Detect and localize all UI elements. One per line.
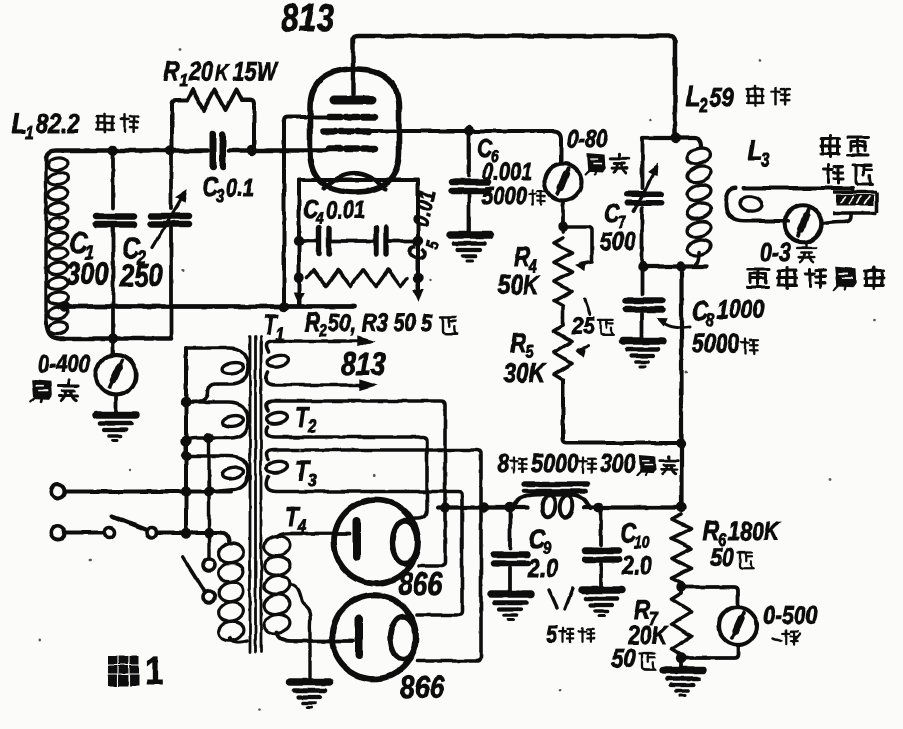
node junction T2-top on bus — [440, 502, 450, 512]
svg-text:3: 3 — [761, 149, 770, 171]
svg-text:2.0: 2.0 — [621, 550, 652, 580]
svg-text:0-80: 0-80 — [567, 126, 608, 153]
label R7 20K 50W — [634, 594, 650, 625]
svg-text:813: 813 — [341, 346, 385, 382]
tube V2 866 plate bar — [353, 521, 361, 557]
tube V2 866 filament loop — [393, 521, 418, 564]
svg-text:180K: 180K — [728, 516, 781, 546]
svg-text:250: 250 — [119, 258, 163, 293]
transformer primary winding P1 — [186, 348, 248, 402]
label figure 1 — [108, 656, 139, 686]
tube V2 866 envelope — [334, 500, 418, 584]
svg-text:3: 3 — [308, 470, 316, 490]
svg-text:L: L — [686, 81, 700, 113]
transformer T core — [249, 337, 252, 652]
svg-text:50: 50 — [612, 643, 636, 673]
label T2 — [295, 401, 311, 432]
ground - C9 — [491, 594, 531, 620]
wire - main top-left wire from L1 to grid cap C3 — [46, 151, 208, 161]
label R2 50, R3 50 5W — [305, 307, 321, 337]
svg-text:2: 2 — [307, 416, 316, 436]
node junction screen wire / C6 — [464, 125, 474, 135]
wire - tap selector — [207, 438, 210, 558]
svg-text:4: 4 — [297, 516, 306, 536]
ground - T4 center tap — [290, 682, 330, 708]
label L3 — [748, 135, 762, 167]
label C7 500 — [604, 198, 620, 228]
label C8 1000 5000V — [692, 295, 709, 326]
svg-text:8: 8 — [497, 448, 509, 478]
capacitor C10 2.0 — [599, 508, 603, 546]
terminal input 1 — [51, 485, 65, 499]
arrow - right rail end — [414, 290, 423, 300]
label RF ammeter — [748, 269, 769, 287]
svg-text:R: R — [510, 327, 526, 358]
tank top rail — [642, 138, 701, 147]
svg-text:5000: 5000 — [531, 448, 579, 478]
svg-text:1: 1 — [25, 122, 34, 144]
node junction primary P3 top — [181, 451, 191, 461]
label 866 no2 — [400, 669, 445, 705]
label 866 no1 — [398, 566, 443, 602]
wire - R4 rheostat bypass — [563, 227, 592, 264]
capacitor C6 0.001 5000V — [467, 131, 471, 177]
svg-text:4: 4 — [315, 209, 324, 228]
svg-text:0.01: 0.01 — [326, 197, 365, 224]
ground - C10 — [582, 590, 622, 616]
label 0-400 — [38, 351, 90, 378]
svg-text:2.0: 2.0 — [527, 553, 558, 583]
label 5 kV marks — [549, 590, 557, 608]
label milliampere M2 — [586, 154, 605, 174]
wire - input 2 to primary — [157, 533, 229, 542]
svg-text:5: 5 — [546, 621, 557, 647]
meter M4 0-500 V — [682, 587, 739, 607]
svg-text:K: K — [215, 60, 230, 85]
transformer primary winding P2 — [186, 402, 248, 441]
svg-text:25: 25 — [571, 313, 595, 340]
label R5 30K — [510, 327, 526, 358]
node junction input2/tap — [204, 527, 214, 537]
node junction C10 tap — [593, 502, 603, 512]
node junction grid-return on cathode bus — [279, 302, 289, 312]
resistor R5 30K — [561, 306, 565, 325]
tube V3 866 filament loop — [391, 617, 416, 660]
label C3 0.1 — [202, 171, 219, 202]
svg-text:0.1: 0.1 — [226, 175, 254, 202]
tube V1 813 filament dome — [324, 174, 385, 190]
capacitor C7 500 (variable) — [640, 138, 644, 188]
label 0-3A — [760, 237, 791, 267]
node junction R-row left — [294, 273, 304, 283]
svg-text:5000: 5000 — [692, 328, 740, 358]
node junction C4 left — [294, 236, 304, 246]
label C6 0.001 5000V — [477, 133, 493, 163]
tube V3 866 plate bar — [355, 619, 363, 655]
ground - C6 — [450, 235, 490, 261]
tube V1 813 grid row 2 dashes (screen) — [323, 128, 335, 135]
ground - meter M1 — [96, 415, 136, 441]
node junction T3-top crossing bus — [479, 502, 489, 512]
wire - T2 top to 866no1 filament (below bus) — [419, 508, 445, 567]
meter M3 0-3A RF ammeter — [785, 206, 822, 243]
inductor L2 tank coil — [685, 146, 713, 167]
node junction tap wire top — [204, 433, 214, 443]
tube V1 813 grid row 3 dashes — [329, 145, 341, 152]
svg-text:L: L — [12, 108, 26, 140]
capacitor C1 300 — [111, 151, 115, 209]
label R6 180K 50W — [703, 515, 719, 546]
arrow - R4 tap — [576, 262, 586, 270]
label 0-80 — [567, 126, 608, 153]
svg-text:R: R — [163, 55, 179, 86]
transformer secondary T2 — [266, 401, 445, 503]
transformer secondary T3 — [266, 450, 481, 661]
node junction L1 tap — [60, 301, 70, 311]
label 0-500 V — [763, 600, 818, 630]
inductor L1 winding — [44, 158, 47, 327]
node junction R4 top — [558, 222, 568, 232]
wire - cathode output bus (866 rectifier output) — [438, 505, 681, 509]
node junction R-row right — [413, 273, 423, 283]
svg-text:0-400: 0-400 — [38, 351, 90, 378]
meter M1 0-400 mA — [111, 339, 115, 356]
label T3 — [295, 455, 311, 486]
transformer primary bus — [184, 348, 188, 533]
svg-text:30K: 30K — [504, 357, 547, 388]
switch S1 blade — [112, 516, 147, 530]
resistor R4 50K — [554, 238, 572, 306]
node junction primary bottom / input2 — [181, 528, 191, 538]
node junction C2/R1 left — [165, 145, 175, 155]
tap terminal A — [203, 559, 215, 571]
svg-text:300: 300 — [66, 256, 109, 291]
label T1 — [263, 309, 279, 340]
label C9 2.0 — [529, 523, 546, 554]
arrow - left rail to cathode bus — [295, 293, 304, 303]
label 25W — [585, 300, 590, 314]
tap terminal B — [203, 591, 215, 603]
pickup loop L3 — [726, 188, 853, 221]
arrow - 813 filament wire bottom — [360, 380, 376, 390]
wire - C4 box right rail — [416, 180, 420, 292]
label R1 20k 15W — [163, 55, 179, 86]
label T4 — [285, 501, 301, 532]
switch S1 throw — [147, 528, 157, 538]
resistor R6 180K 50W — [672, 514, 692, 583]
wire - C1/C2 ground bus — [58, 336, 171, 341]
svg-text:15W: 15W — [233, 56, 279, 86]
node junction R6/R7 — [676, 582, 686, 592]
svg-text:866: 866 — [400, 669, 445, 705]
speckles (scan noise) — [372, 473, 375, 476]
svg-text:500: 500 — [600, 226, 636, 256]
inductor L4 filter choke — [524, 481, 588, 487]
tank bottom rail — [642, 264, 706, 268]
svg-text:1000: 1000 — [717, 294, 765, 324]
arrow - variable C2 — [152, 194, 184, 248]
ground - C8 — [623, 341, 663, 367]
svg-text:1: 1 — [180, 70, 188, 90]
meter M2 0-80 mA — [545, 164, 582, 201]
label C1 300 — [70, 227, 88, 260]
label choke 8H 5000V 300mA — [497, 448, 509, 478]
arrow - pointer to R5 — [578, 346, 589, 350]
svg-text:1: 1 — [145, 648, 163, 693]
node junction tank top feed — [671, 133, 681, 143]
label L1 82.2 microhenry — [12, 108, 26, 140]
svg-text:L: L — [748, 135, 762, 167]
svg-text:0-500: 0-500 — [763, 600, 818, 630]
capacitor C2 250 (variable) — [169, 151, 173, 209]
switch S1 pole — [104, 528, 114, 538]
svg-text:2: 2 — [698, 95, 708, 117]
wire - grid row1 stub to grid-return — [284, 117, 330, 303]
wire - meter M2 to R4 — [561, 201, 565, 233]
wire - screen row to C6/meter node — [369, 131, 561, 162]
resistor R7 20K 50W — [680, 583, 684, 593]
arrow - 813 filament wire top — [358, 336, 374, 346]
label nichrome strip — [821, 136, 839, 157]
node junction R7 bottom — [676, 653, 686, 663]
node junction C1 bottom / meter — [108, 333, 118, 343]
svg-text:50K: 50K — [498, 269, 541, 300]
tube V3 866 envelope — [332, 595, 416, 679]
label C4 0.01 — [303, 194, 319, 224]
node junction C3/R1 right — [247, 145, 257, 155]
capacitor C8 1000 5000V — [640, 267, 644, 295]
svg-text:0.001: 0.001 — [482, 159, 533, 186]
node junction primary P1/P2 — [181, 397, 191, 407]
wire - R5 bottom to HV node — [563, 380, 682, 443]
transformer secondary T4 (HV) — [263, 534, 292, 557]
node junction input1/tap wire — [204, 486, 214, 496]
ground - R7 — [663, 670, 703, 696]
ballast strip element — [833, 188, 877, 213]
svg-text:813: 813 — [281, 0, 335, 40]
label L2 59 microhenry — [686, 81, 700, 113]
wire - plate top lead from 813 to tank — [353, 36, 675, 133]
svg-text:0-3: 0-3 — [760, 237, 791, 267]
label 813 filament — [341, 346, 385, 382]
svg-text:8: 8 — [706, 310, 715, 330]
node junction C4 right — [413, 236, 423, 246]
transformer primary winding P3 — [186, 456, 248, 491]
svg-text:50, R3 50 5: 50, R3 50 5 — [328, 310, 434, 337]
node junction choke output — [676, 502, 686, 512]
capacitor C4 0.01 (two filament bypass caps) — [299, 239, 317, 243]
label milliampere M1 — [31, 380, 52, 402]
tube V1 813 plate cap bar — [334, 96, 372, 105]
node junction C1 top — [108, 145, 118, 155]
tube V1 813 grid row 1 dashes — [329, 114, 341, 121]
transformer primary winding P4 (tapped) — [217, 541, 245, 565]
label 813 top — [281, 0, 335, 40]
svg-text:20: 20 — [188, 56, 213, 86]
label C10 2.0 — [620, 517, 637, 548]
capacitor C4 box top — [299, 178, 418, 182]
wire - HV riser from tank to choke node — [679, 267, 683, 507]
svg-text:2: 2 — [318, 321, 327, 340]
node junction primary P3 bottom / input1 — [181, 486, 191, 496]
resistor R1 20k 15W (grid leak) — [172, 100, 187, 148]
svg-text:R: R — [514, 241, 530, 272]
node junction primary P2 bottom — [181, 436, 191, 446]
node junction tank bottom feed — [676, 262, 686, 272]
svg-text:3: 3 — [216, 186, 224, 206]
wire - tank low tap bus to cathode/T1 — [58, 304, 355, 309]
label C2 250 — [122, 232, 140, 265]
arrow - variable C7 — [634, 168, 656, 212]
tube V1 813 envelope — [310, 69, 399, 192]
resistors R2 50 / R3 50 zigzag — [307, 270, 407, 287]
node junction tank bottom left — [638, 262, 648, 272]
label 5kV — [546, 621, 557, 647]
svg-text:0.01: 0.01 — [407, 187, 440, 229]
capacitor C9 2.0 — [508, 508, 512, 549]
transformer secondary T1 (813 filament) — [266, 341, 360, 352]
arrow - pointer to C8 — [660, 320, 690, 328]
wire - C4 box left rail — [297, 180, 301, 305]
svg-text:82.2: 82.2 — [36, 108, 80, 139]
wire - input 1 — [65, 490, 231, 494]
tap selector blade — [183, 557, 205, 592]
svg-text:300: 300 — [600, 448, 636, 478]
node junction C9 tap — [505, 502, 515, 512]
label R4 50K — [514, 241, 530, 272]
svg-text:5000: 5000 — [482, 183, 527, 210]
svg-text:866: 866 — [398, 566, 443, 602]
wire - T4 center tap — [290, 584, 310, 680]
capacitor C3 0.1 (grid coupling, vertical plates) — [210, 135, 217, 168]
node junction HV riser / bleeder — [676, 438, 686, 448]
wire - input2 stub — [65, 531, 103, 535]
label C5 0.01 (rotated) — [403, 242, 433, 263]
svg-text:59: 59 — [710, 82, 734, 112]
svg-text:50: 50 — [710, 542, 734, 572]
terminal input 2 — [51, 526, 65, 540]
